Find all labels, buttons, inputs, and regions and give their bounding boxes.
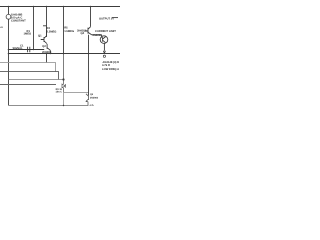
svg-text:4.7k R: 4.7k R — [102, 64, 110, 67]
wire gray feedback — [64, 92, 89, 94]
current source V1 — [6, 14, 11, 19]
svg-text:SIGNAL: SIGNAL — [13, 47, 24, 50]
wire bottom rail — [9, 105, 89, 107]
transistor Q2 — [47, 44, 51, 63]
svg-text:2.2MEG: 2.2MEG — [47, 30, 57, 33]
diode D1 — [62, 80, 65, 93]
svg-text:2N3904: 2N3904 — [42, 51, 52, 54]
wire mid drop R5 — [63, 7, 65, 54]
node output terminal — [103, 55, 105, 57]
svg-text:2N2222: 2N2222 — [93, 34, 103, 37]
node junction dots — [8, 6, 10, 8]
svg-text:Q2: Q2 — [42, 45, 46, 48]
wire node row — [9, 79, 64, 81]
svg-text:1MEG: 1MEG — [24, 32, 32, 35]
wire resistor R2 drop — [46, 7, 48, 38]
node output arrow — [103, 51, 105, 53]
node tick R2 — [43, 25, 47, 27]
capacitor C1 — [28, 47, 30, 52]
svg-text:10n C: 10n C — [55, 91, 62, 94]
wire input line — [9, 49, 45, 51]
transistor Q3 envelope — [100, 36, 108, 44]
transistor Q3 — [101, 35, 105, 43]
transistor Q4 — [85, 27, 92, 35]
wire staircase top — [0, 63, 56, 72]
svg-text:1.5MEG: 1.5MEG — [64, 30, 74, 33]
svg-text:LOW FREQ A: LOW FREQ A — [102, 68, 119, 71]
wire mid drop lower — [63, 54, 65, 80]
transistor Q5 — [86, 94, 89, 106]
wire bottom left rail — [0, 84, 56, 86]
wire top supply rail — [0, 6, 120, 8]
wire Q4 emitter to Q3 — [92, 34, 102, 36]
svg-text:OUTPUT 2V: OUTPUT 2V — [99, 18, 114, 21]
svg-text:CONSTANT: CONSTANT — [11, 20, 26, 23]
transistor Q1 — [41, 30, 47, 44]
wire resistor R1 drop — [33, 7, 35, 50]
wire cap drop — [63, 93, 65, 106]
wire mid ground rail — [9, 53, 121, 55]
svg-text:Q1: Q1 — [38, 35, 42, 38]
svg-text:Q4: Q4 — [81, 32, 85, 35]
wire right vertical mid — [88, 35, 90, 95]
wire left vertical bus — [8, 7, 10, 15]
svg-text:2N3906: 2N3906 — [90, 96, 99, 99]
wire Q3 emitter — [103, 43, 105, 50]
wire left vertical bus lower — [8, 19, 10, 105]
wire output arrow top right — [112, 17, 118, 19]
svg-text:CURRENT LIMIT: CURRENT LIMIT — [95, 30, 116, 33]
wire Q4 collector — [90, 7, 92, 27]
wire staircase mid — [0, 72, 59, 80]
